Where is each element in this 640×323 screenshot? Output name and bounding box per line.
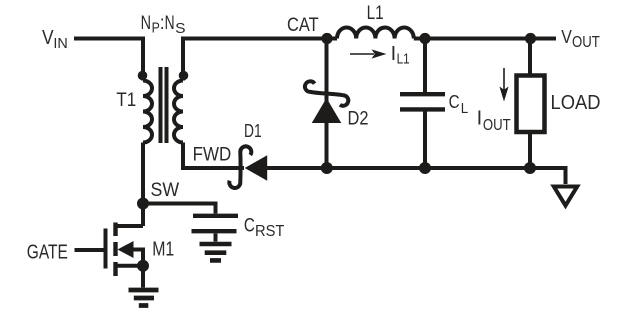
capacitor C_RST plates <box>192 216 239 231</box>
svg-text:L: L <box>461 100 468 117</box>
wire C_L bottom <box>423 112 427 169</box>
wire secondary top to top rail <box>183 39 337 81</box>
svg-text:S: S <box>175 20 185 37</box>
diode D1 schottky S-curve cathode <box>229 146 251 188</box>
svg-text:C: C <box>244 215 255 237</box>
transistor M1 gate bar <box>104 229 108 269</box>
wire LOAD bottom <box>528 134 532 168</box>
node SW junction dot <box>137 198 149 210</box>
node CAT junction dot <box>321 33 332 44</box>
svg-text:L1: L1 <box>397 51 410 68</box>
diode D2 schottky S-curve cathode <box>305 81 348 105</box>
transistor M1 channel segments <box>113 223 117 277</box>
node D1-D2 rail junction dot <box>321 162 333 174</box>
svg-text:C: C <box>449 91 460 112</box>
svg-text:D1: D1 <box>244 120 262 141</box>
svg-text:SW: SW <box>151 180 180 201</box>
wire CAT node down through D2 to rail <box>325 39 329 169</box>
ground below M1 <box>129 290 159 306</box>
wire LOAD top <box>528 39 532 74</box>
svg-text:OUT: OUT <box>483 117 511 134</box>
wire C_RST to ground <box>214 234 218 242</box>
wire V_IN lead to primary top <box>74 39 143 81</box>
diode D2 triangle <box>312 98 342 123</box>
svg-text:IN: IN <box>53 35 67 52</box>
node VOUT junction dot <box>525 33 536 44</box>
svg-text:FWD: FWD <box>193 145 232 166</box>
svg-text:D2: D2 <box>348 108 369 129</box>
svg-text:OUT: OUT <box>572 34 600 51</box>
transformer T1 primary phasing dot <box>138 71 148 81</box>
current arrow I_OUT <box>503 68 505 94</box>
svg-text:V: V <box>561 26 572 47</box>
node CL rail junction dot <box>419 162 431 174</box>
svg-text:I: I <box>477 108 483 130</box>
transistor M1 body-source link <box>132 250 143 266</box>
svg-text:P: P <box>152 19 160 36</box>
ground triangle right <box>554 187 577 206</box>
wire SW to C_RST <box>143 204 216 214</box>
transformer T1 secondary phasing dot <box>179 71 189 81</box>
transistor M1 source stub <box>116 264 144 268</box>
svg-text:T1: T1 <box>116 90 136 111</box>
svg-text:CAT: CAT <box>287 15 319 36</box>
svg-text:M1: M1 <box>152 238 174 260</box>
svg-text:LOAD: LOAD <box>551 92 601 114</box>
ground below C_RST <box>200 244 232 260</box>
svg-text:V: V <box>42 27 54 49</box>
load resistor LOAD box <box>517 76 545 133</box>
svg-text:L1: L1 <box>367 3 384 24</box>
transistor M1 gate lead <box>75 248 104 252</box>
svg-text:I: I <box>391 43 397 65</box>
wire top rail after L1 to V_OUT <box>414 37 556 41</box>
svg-text:N: N <box>141 12 151 34</box>
svg-text:GATE: GATE <box>27 242 68 264</box>
capacitor C_L plates <box>400 94 445 109</box>
diode D1 triangle <box>245 155 268 180</box>
wire M1 source to ground <box>141 266 145 288</box>
node LOAD rail junction dot <box>524 162 536 174</box>
transformer T1 secondary winding <box>174 81 183 143</box>
wire secondary bottom to FWD rail <box>183 143 244 169</box>
node M1 source dot <box>137 260 149 272</box>
transformer T1 core bars <box>161 67 167 143</box>
svg-text:RST: RST <box>255 223 285 240</box>
transformer T1 primary winding <box>143 81 152 143</box>
svg-text:N: N <box>165 12 175 34</box>
transistor M1 drain stub <box>116 224 144 228</box>
wire C_L top <box>423 39 427 93</box>
inductor L1 <box>337 27 414 38</box>
node L1-CL junction dot <box>419 33 430 44</box>
current arrow I_L1 <box>350 53 374 55</box>
transistor M1 body arrow <box>118 241 134 258</box>
wire D1 cathode-side rail to right end and gnd <box>266 168 566 184</box>
wire primary bottom to SW to M1 drain <box>141 143 145 227</box>
